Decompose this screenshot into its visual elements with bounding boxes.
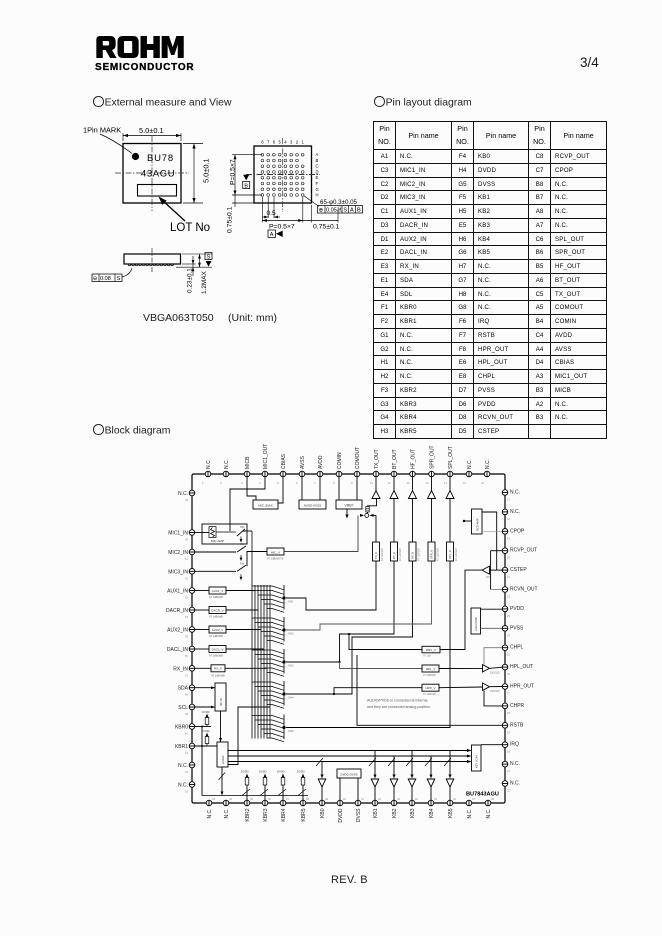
charge pump block <box>471 608 481 634</box>
datum A box <box>268 230 276 238</box>
svg-text:RSTB: RSTB <box>510 722 524 728</box>
svg-text:AUDIO/PVDD is connected at int: AUDIO/PVDD is connected at internal, <box>367 699 428 703</box>
svg-text:21: 21 <box>507 575 510 579</box>
output amp SPL <box>446 491 454 499</box>
0.23±0.1 dimension <box>192 256 194 276</box>
svg-text:0.75±0.1: 0.75±0.1 <box>227 206 234 233</box>
logic down arrow <box>221 767 223 793</box>
svg-text:C: C <box>316 164 319 169</box>
RCV amp top output <box>482 512 497 570</box>
wire CHPL loop <box>484 648 502 665</box>
svg-text:5: 5 <box>279 140 282 145</box>
wire to REV_V <box>349 634 422 650</box>
svg-text:41: 41 <box>361 797 364 801</box>
svg-text:2: 2 <box>220 481 222 485</box>
svg-text:8: 8 <box>261 140 264 145</box>
svg-text:MIC3_IN: MIC3_IN <box>168 569 188 575</box>
svg-text:KBR2: KBR2 <box>245 808 251 821</box>
datum A triangle <box>276 231 283 237</box>
svg-text:HPL_V: HPL_V <box>426 667 436 671</box>
svg-text:16: 16 <box>481 481 484 485</box>
AVDD/AVSS block <box>299 500 326 509</box>
wire COMIN <box>338 477 340 500</box>
wire RCVP_OUT <box>491 550 502 552</box>
svg-text:31: 31 <box>507 769 510 773</box>
svg-text:N.C.: N.C. <box>207 809 213 819</box>
column numbers 8-1 <box>261 140 304 145</box>
footer revision <box>331 874 368 886</box>
gain resistor box in mic amp <box>209 527 216 538</box>
svg-text:37: 37 <box>286 797 289 801</box>
wire AUX2_IN <box>195 629 209 631</box>
svg-text:48: 48 <box>491 797 494 801</box>
svg-text:DVSS: DVSS <box>356 808 362 822</box>
svg-text:43AGU: 43AGU <box>141 169 175 180</box>
svg-text:0.5: 0.5 <box>267 210 276 217</box>
svg-text:B: B <box>357 208 361 214</box>
svg-text:25: 25 <box>507 653 510 657</box>
svg-text:HPR_OUT: HPR_OUT <box>510 684 534 690</box>
DACL_V volume block <box>209 646 226 653</box>
wire pad to SPL_V amp <box>449 477 451 491</box>
svg-text:RX_V: RX_V <box>214 667 222 671</box>
leader to ball H1 <box>304 196 320 207</box>
VREF block <box>336 500 362 509</box>
svg-text:28: 28 <box>507 711 510 715</box>
KB column drop at 431 <box>430 756 432 776</box>
IC chip outline BU7843AGU <box>192 474 505 803</box>
svg-text:AT 1dB/0dB: AT 1dB/0dB <box>209 595 223 599</box>
svg-text:A: A <box>270 232 274 238</box>
svg-text:COMIN: COMIN <box>337 452 343 469</box>
wire REV_V to charge pump <box>440 570 482 649</box>
svg-text:BU78: BU78 <box>147 153 174 164</box>
position tolerance frame <box>318 206 363 214</box>
svg-text:15: 15 <box>463 481 466 485</box>
svg-text:TX_OUT: TX_OUT <box>374 449 380 469</box>
svg-text:51: 51 <box>185 557 188 561</box>
svg-text:SW3: SW3 <box>288 664 294 668</box>
top edge pad labels <box>206 444 491 469</box>
svg-text:HF_V: HF_V <box>411 552 415 559</box>
svg-text:AT 1dB/0dB: AT 1dB/0dB <box>437 548 440 561</box>
svg-text:BT_OUT: BT_OUT <box>392 449 398 469</box>
svg-text:KB3: KB3 <box>410 808 416 818</box>
svg-text:B: B <box>244 183 248 189</box>
switch cluster SW3 <box>252 649 286 676</box>
svg-text:KB1: KB1 <box>373 808 379 818</box>
svg-text:E: E <box>316 175 319 180</box>
VREF output arrow <box>346 509 348 516</box>
svg-text:N.C.: N.C. <box>224 459 230 469</box>
svg-text:0.23±0.1: 0.23±0.1 <box>187 268 194 293</box>
svg-text:AUX1_V: AUX1_V <box>212 589 224 593</box>
pad circles bottom <box>206 800 491 806</box>
wire HPL_OUT <box>490 667 503 668</box>
wire to HPR_V <box>333 693 335 695</box>
svg-text:KEY SCAN: KEY SCAN <box>475 755 479 768</box>
svg-text:COMOUT: COMOUT <box>355 447 361 469</box>
svg-text:16Ω/32Ω: 16Ω/32Ω <box>490 690 500 693</box>
svg-text:PVSS: PVSS <box>510 625 524 631</box>
svg-text:10: 10 <box>370 481 373 485</box>
svg-text:SPL_V: SPL_V <box>448 550 452 559</box>
svg-text:SDA: SDA <box>178 686 189 692</box>
svg-text:A: A <box>316 152 319 157</box>
svg-text:55: 55 <box>185 635 188 639</box>
BT_V volume block <box>391 542 398 561</box>
svg-text:CPOP: CPOP <box>510 528 525 534</box>
svg-text:N.C.: N.C. <box>178 763 188 769</box>
svg-text:59: 59 <box>185 712 188 716</box>
svg-text:22: 22 <box>507 595 510 599</box>
svg-text:A: A <box>350 208 354 214</box>
section header: Block diagram <box>93 424 170 437</box>
wire DACR_IN <box>195 609 209 611</box>
svg-text:13: 13 <box>426 481 429 485</box>
svg-text:I2C I/F: I2C I/F <box>219 697 223 706</box>
svg-text:53: 53 <box>185 596 188 600</box>
svg-text:TX_V: TX_V <box>374 552 378 559</box>
svg-text:61: 61 <box>185 751 188 755</box>
BGA ball grid (63 balls) <box>261 153 304 196</box>
svg-text:S: S <box>207 254 211 260</box>
KB output inverter at 394 <box>390 779 398 787</box>
DVDD DVSS block <box>337 769 361 778</box>
svg-text:AUX2_V: AUX2_V <box>212 628 224 632</box>
1Pin MARK leader line <box>100 134 132 154</box>
svg-text:44: 44 <box>415 797 418 801</box>
HPL amp <box>439 667 483 669</box>
svg-text:DVDD: DVDD <box>202 710 210 714</box>
svg-text:0.08: 0.08 <box>100 276 111 282</box>
svg-text:63: 63 <box>185 790 188 794</box>
svg-text:5: 5 <box>277 481 279 485</box>
switch cluster SW1 <box>252 585 286 612</box>
HF_V volume block <box>409 542 416 561</box>
key scan lines <box>228 750 470 752</box>
REV_V volume block <box>422 646 440 653</box>
svg-text:6: 6 <box>296 481 298 485</box>
wire MIC1_OUT to mic amp <box>230 477 265 531</box>
center line vertical (bottom view) <box>282 138 284 212</box>
svg-text:MIC AMP: MIC AMP <box>211 539 224 543</box>
svg-text:16Ω/32Ω: 16Ω/32Ω <box>490 672 500 675</box>
svg-text:AT 1dB: AT 1dB <box>423 654 431 657</box>
svg-text:49: 49 <box>185 498 188 502</box>
svg-text:S: S <box>117 276 121 282</box>
svg-text:AT 1dB/0dB: AT 1dB/0dB <box>209 654 223 658</box>
svg-text:5.0±0.1: 5.0±0.1 <box>139 126 164 135</box>
KB column drop at 412 <box>411 751 413 777</box>
svg-text:PVDD: PVDD <box>510 606 524 612</box>
package top view outline <box>123 144 181 204</box>
svg-text:65-φ0.3±0.05: 65-φ0.3±0.05 <box>320 199 358 206</box>
wire DVSS pad <box>357 778 359 800</box>
output amp HF <box>409 491 417 499</box>
svg-text:AVDD·AVSS: AVDD·AVSS <box>304 504 321 508</box>
wire MIC1_IN <box>195 532 209 534</box>
svg-text:1: 1 <box>302 140 305 145</box>
solder balls side view <box>128 264 173 266</box>
svg-text:AVSS: AVSS <box>300 455 306 469</box>
svg-text:N.C.: N.C. <box>510 781 520 787</box>
svg-text:N.C.: N.C. <box>485 459 491 469</box>
svg-text:KB0: KB0 <box>320 808 326 818</box>
svg-text:P=0.5×7: P=0.5×7 <box>230 159 237 185</box>
svg-text:HPR_V: HPR_V <box>425 686 435 690</box>
HPR_V volume block <box>422 684 439 691</box>
svg-text:CHG PUMP: CHG PUMP <box>474 617 478 631</box>
svg-text:HPL_OUT: HPL_OUT <box>510 664 533 670</box>
coplanarity tolerance frame <box>92 274 122 282</box>
svg-text:SPL_OUT: SPL_OUT <box>448 446 454 469</box>
svg-text:H: H <box>316 193 319 198</box>
svg-text:39: 39 <box>325 797 328 801</box>
svg-text:N.C.: N.C. <box>510 509 520 515</box>
svg-text:40: 40 <box>343 797 346 801</box>
svg-text:IRQ: IRQ <box>510 742 519 748</box>
wire stubs through pads <box>189 471 508 806</box>
wire RSTB <box>357 655 502 725</box>
svg-text:AT 1dB/0dB: AT 1dB/0dB <box>423 693 436 696</box>
bottom dimension line <box>302 197 304 223</box>
output amp BT <box>390 491 398 499</box>
side view center line <box>151 248 153 272</box>
svg-text:RX_IN: RX_IN <box>173 666 188 672</box>
svg-text:MIC1_OUT: MIC1_OUT <box>263 444 269 469</box>
wire pad to TX_V amp <box>375 477 377 491</box>
svg-text:F: F <box>316 181 319 186</box>
svg-text:N.C.: N.C. <box>467 459 473 469</box>
wire AUX1_V to bus <box>226 590 255 592</box>
wire CPOP <box>482 530 502 532</box>
AUX2_V volume block <box>209 626 226 633</box>
svg-text:KBR5: KBR5 <box>301 808 307 821</box>
svg-text:N.C.: N.C. <box>178 491 188 497</box>
svg-text:DVDD: DVDD <box>338 808 344 823</box>
wire RX_IN <box>195 667 211 669</box>
wire MICB to mic bias <box>247 477 256 500</box>
left edge pad labels <box>166 491 189 789</box>
wire AVDD <box>319 477 321 500</box>
svg-text:CHPL: CHPL <box>510 645 524 651</box>
svg-text:7: 7 <box>314 481 316 485</box>
datum B triangle <box>243 175 249 181</box>
KB output inverter at 375 <box>371 779 379 787</box>
output amp SPR <box>428 491 436 499</box>
svg-text:RCV AMP: RCV AMP <box>476 518 480 531</box>
svg-text:9: 9 <box>351 481 353 485</box>
switch cluster SW4 <box>252 681 286 708</box>
dimension P=0.5x7 left vertical <box>232 154 262 156</box>
MIC AMP block <box>202 524 247 544</box>
svg-text:AT 1dB/0dB: AT 1dB/0dB <box>423 674 436 677</box>
svg-text:SW5: SW5 <box>288 729 294 733</box>
svg-text:RCVP_OUT: RCVP_OUT <box>510 548 537 554</box>
svg-text:SEMICONDUCTOR: SEMICONDUCTOR <box>95 62 194 73</box>
wire MIC3_IN <box>195 570 236 572</box>
wire I2C to logic <box>220 711 222 742</box>
wire KBR0 <box>195 726 211 728</box>
KB column drop at 322 <box>321 762 323 777</box>
svg-text:24: 24 <box>507 633 510 637</box>
KB column drop at 450 <box>449 751 451 777</box>
pad circles left <box>189 490 195 787</box>
svg-text:2: 2 <box>296 140 299 145</box>
DACR_V volume block <box>209 607 226 614</box>
svg-text:N.C.: N.C. <box>224 809 230 819</box>
AUX1_V volume block <box>209 587 226 594</box>
svg-text:43: 43 <box>397 797 400 801</box>
pin layout table <box>373 121 607 439</box>
wire LOGIC to switch bus control <box>228 707 270 765</box>
svg-text:MIC_BIAS: MIC_BIAS <box>258 504 272 508</box>
wire COMOUT <box>356 477 358 500</box>
svg-text:12: 12 <box>407 481 410 485</box>
svg-text:SW2: SW2 <box>288 632 294 636</box>
svg-text:19: 19 <box>507 536 510 540</box>
wire amp to BT_V <box>393 499 395 543</box>
svg-text:SPR_V: SPR_V <box>430 550 434 559</box>
svg-text:N.C.: N.C. <box>206 459 212 469</box>
svg-text:18: 18 <box>507 517 510 521</box>
svg-text:58: 58 <box>185 693 188 697</box>
wire AUX2_V to bus <box>226 629 261 631</box>
REV tap junction <box>348 633 350 635</box>
svg-text:MIC1_IN: MIC1_IN <box>168 531 188 537</box>
wire TX_V to switch bus <box>286 561 376 610</box>
svg-text:42: 42 <box>378 797 381 801</box>
svg-text:8: 8 <box>333 481 335 485</box>
svg-text:DACR_V: DACR_V <box>211 608 223 612</box>
svg-text:36: 36 <box>268 797 271 801</box>
side view right dimension extension lines <box>182 253 212 255</box>
RX_V volume block <box>211 665 225 672</box>
MIC_BIAS block <box>253 500 278 509</box>
svg-text:KBR1: KBR1 <box>175 744 188 750</box>
wire MIC_V output to TX selector <box>284 515 358 551</box>
svg-text:29: 29 <box>507 730 510 734</box>
LOGIC block <box>217 742 228 767</box>
wire SCL <box>195 706 215 708</box>
svg-text:17: 17 <box>507 498 510 502</box>
wire SDA <box>195 687 215 689</box>
svg-text:27: 27 <box>507 692 510 696</box>
svg-text:⊖: ⊖ <box>93 276 98 282</box>
svg-text:N.C.: N.C. <box>467 809 473 819</box>
svg-text:CBIAS: CBIAS <box>281 453 287 469</box>
svg-text:SW: SW <box>240 525 245 529</box>
svg-text:DVDD: DVDD <box>202 729 210 733</box>
SPR_V volume block <box>428 542 435 561</box>
svg-text:SW1: SW1 <box>288 600 294 604</box>
svg-text:KBR4: KBR4 <box>281 808 287 821</box>
svg-text:MICB: MICB <box>245 456 251 469</box>
svg-text:7: 7 <box>267 140 270 145</box>
switch SW mic3 <box>237 565 246 571</box>
svg-text:0.05Ⓜ: 0.05Ⓜ <box>326 206 343 214</box>
center line vertical (top view) <box>151 136 153 211</box>
svg-text:N.C.: N.C. <box>486 809 492 819</box>
wire DACR_V to bus <box>226 609 258 611</box>
package drawing SVG placeholder <box>75 115 375 335</box>
dimension 0.75±0.1 left lower <box>232 202 254 204</box>
wire CHPR loop <box>484 691 502 706</box>
wire pad to SPR_V amp <box>431 477 433 491</box>
wire RX_V to bus <box>225 667 267 669</box>
wire DACL_IN <box>195 648 209 650</box>
svg-text:LOT No: LOT No <box>170 222 210 234</box>
switch SW mic2 <box>237 546 246 552</box>
TX selector node <box>365 513 369 517</box>
wire to HPL_V <box>338 661 340 663</box>
mic amp output to bus <box>243 530 252 532</box>
wire CBIAS to mic bias <box>278 477 283 503</box>
output amp TX <box>372 491 380 499</box>
svg-text:14: 14 <box>444 481 447 485</box>
svg-text:SW: SW <box>240 561 245 565</box>
KB output inverter at 431 <box>427 779 435 787</box>
1.2MAX dimension <box>199 254 201 267</box>
wire HF_V to switch bus <box>286 561 413 694</box>
wire AVSS <box>301 477 303 500</box>
svg-text:35: 35 <box>250 797 253 801</box>
feedback RCVP to RCVN <box>490 551 492 590</box>
svg-text:MIC_V: MIC_V <box>271 550 280 554</box>
leader from tolerance frame to balls <box>122 268 132 277</box>
datum B box <box>243 182 250 189</box>
pad circles top <box>205 471 490 477</box>
row letters A-H <box>316 152 319 197</box>
svg-text:54: 54 <box>185 615 188 619</box>
wire SPL_V to switch bus <box>286 561 450 728</box>
svg-text:KBR0: KBR0 <box>175 725 188 731</box>
pad circles right <box>502 490 508 787</box>
svg-text:KB4: KB4 <box>429 808 435 818</box>
section header: External measure and View <box>93 96 231 109</box>
wire CSTEP <box>490 569 503 571</box>
svg-text:RCVN_OUT: RCVN_OUT <box>510 587 538 593</box>
wire DACL_V to bus <box>226 648 264 650</box>
I2C interface block <box>215 683 226 711</box>
svg-text:1.2MAX: 1.2MAX <box>201 271 208 294</box>
HPL_V volume block <box>422 665 439 672</box>
svg-text:KB5: KB5 <box>448 808 454 818</box>
svg-text:57: 57 <box>185 673 188 677</box>
wire HPR_OUT <box>490 686 503 688</box>
section header: Pin layout diagram <box>374 96 472 109</box>
svg-text:AT 1dB/MUTE: AT 1dB/MUTE <box>267 557 284 561</box>
svg-text:N.C.: N.C. <box>178 783 188 789</box>
svg-text:DVDD·DVSS: DVDD·DVSS <box>340 773 357 777</box>
svg-text:MIC2_IN: MIC2_IN <box>168 550 188 556</box>
svg-text:1: 1 <box>202 481 204 485</box>
pin numbers <box>185 481 510 801</box>
svg-text:56: 56 <box>185 654 188 658</box>
svg-text:LOGIC: LOGIC <box>221 755 225 764</box>
svg-text:32: 32 <box>507 789 510 793</box>
switch cluster SW2 <box>252 617 286 644</box>
svg-text:B: B <box>316 158 319 163</box>
TX amp feed with gain resistor <box>368 499 377 514</box>
svg-text:DVDD: DVDD <box>259 770 267 774</box>
wire BT_V to switch bus <box>286 561 394 662</box>
svg-text:VREF: VREF <box>344 504 353 508</box>
wire pad to HF_V amp <box>412 477 414 491</box>
1 pin mark dot <box>132 153 139 160</box>
wire pad to BT_V amp <box>393 477 395 491</box>
